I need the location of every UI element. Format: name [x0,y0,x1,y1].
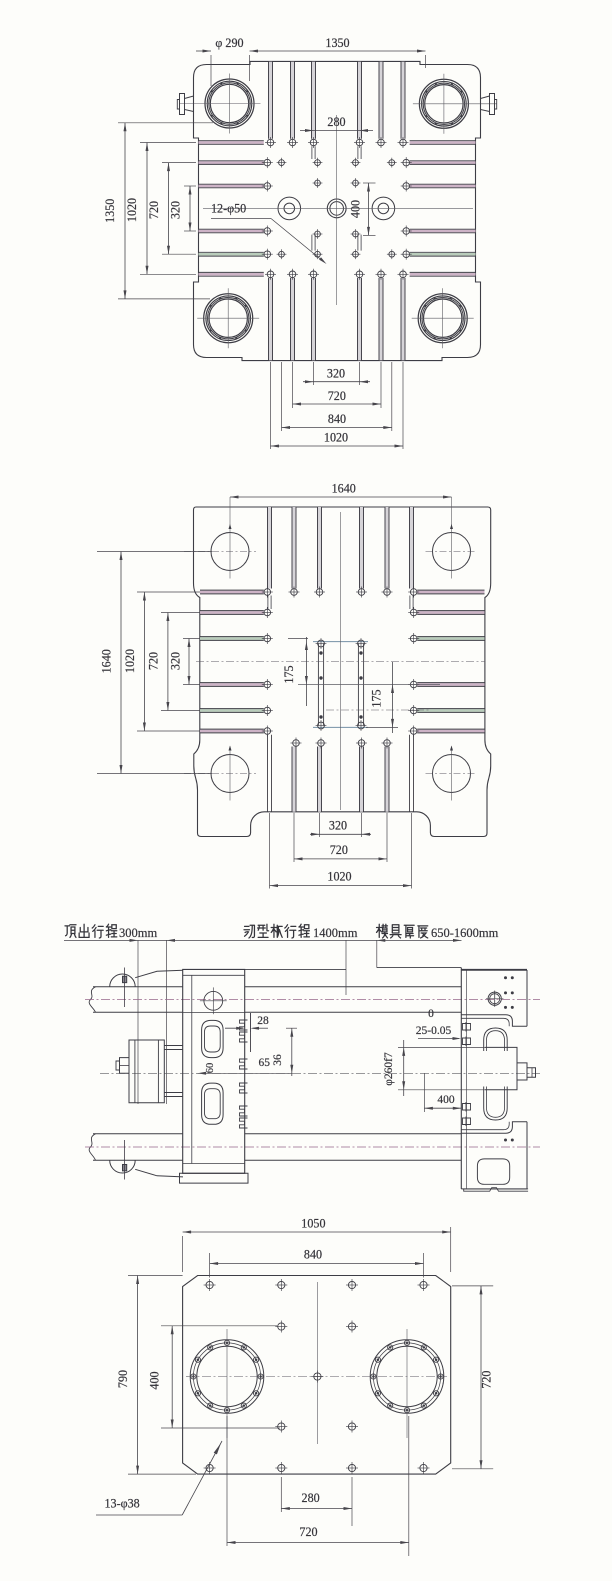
svg-text:320: 320 [169,652,183,670]
svg-text:400: 400 [437,1094,455,1106]
svg-text:1640: 1640 [332,482,356,496]
kidney slot lower (view3) [202,1083,224,1124]
tie bar hole BR (view2) [426,746,478,801]
svg-text:790: 790 [116,1370,130,1388]
guide hole right ring (view1) [372,197,395,220]
left trunnion lug (view1) [177,94,193,115]
flange left (view4) [190,1329,264,1438]
svg-text:320: 320 [329,819,347,833]
svg-text:1350: 1350 [103,199,117,223]
dimension 1640 left (view2) [97,552,212,774]
svg-text:840: 840 [328,412,346,426]
tie bar hole phi290 TR (view1) [413,74,497,134]
dimension 320 left (view2) [169,639,201,685]
moving platen block (view3) [180,969,249,1183]
svg-text:320: 320 [327,367,345,381]
svg-text:720: 720 [330,843,348,857]
ejector bracket top-left (view3) [110,968,183,1008]
svg-text:720: 720 [147,201,161,219]
dimension 320 bottom (view1) [303,367,370,384]
vertical T-slots bottom (view2) [268,735,414,812]
horizontal T-slots left (view2) [200,590,264,733]
svg-text:13-φ38: 13-φ38 [105,1497,140,1511]
label ejector stroke 300mm (view3) [65,924,157,940]
ejector plates (view3) [116,1040,164,1103]
svg-text:650-1600mm: 650-1600mm [431,926,499,940]
svg-text:1050: 1050 [301,1217,325,1231]
tie bar hole phi290 TL (view1) [180,74,261,134]
svg-text:720: 720 [480,1371,494,1389]
bottom extension lines (view2) [270,813,412,889]
mold plate edge line (view3) [250,1013,252,1052]
flange right (view4) [370,1329,444,1438]
horizontal T-slots left (view1) [199,141,264,277]
dimension 1020 left (view2) [123,592,200,731]
centerlines (view4) [186,1282,447,1444]
vertical T-slots top (view2) [268,507,414,609]
svg-text:1020: 1020 [324,431,348,445]
eyebolt hole (view3) [204,991,223,1010]
T-slot end holes rows 2-5 (view1) [262,157,412,260]
bottom right block (view3) [461,1122,528,1192]
view 2 moving platen outline [194,507,491,837]
svg-text:25-0.05: 25-0.05 [416,1025,452,1037]
tolerance labels 0 / 25-0.05 (view3) [416,1008,461,1040]
dimension 1050 top (view4) [183,1217,451,1273]
T-slot end holes row1/row6 (view1) [265,137,409,280]
svg-text:12-φ50: 12-φ50 [211,202,246,216]
label underline and arrows (view3) [64,939,462,942]
bottom extension lines (view1) [271,362,404,449]
dimension 840 bottom (view1) [282,412,392,429]
svg-text:1020: 1020 [125,198,139,222]
ejector rod stubs (view3) [164,1046,182,1097]
dimension 720 left (view2) [147,613,201,711]
svg-text:1400mm: 1400mm [313,926,358,940]
label moving platen stroke 1400mm (view3) [244,924,358,940]
eyebolt hole fixed platen (view3) [486,991,503,1007]
svg-text:280: 280 [327,115,345,129]
svg-text:φ 290: φ 290 [215,36,243,50]
dimension 790 left (view4) [116,1276,196,1475]
tie bar hole TR (view2) [426,497,478,579]
mounting holes grid (view4) [204,1279,430,1474]
tie bar hole BL (view2) [184,746,256,801]
dimension 1640 top (view2) [230,482,452,499]
fixed platen block (view3) [461,968,527,1189]
svg-text:400: 400 [148,1371,162,1389]
dimension 840 (view4) [210,1248,424,1278]
dimension phi260f7 (view3) [383,1040,485,1096]
dimension 1020 bottom (view2) [270,870,412,888]
svg-text:1640: 1640 [100,649,114,673]
svg-text:1020: 1020 [327,870,351,884]
horizontal T-slots right (view1) [410,141,476,277]
svg-text:60: 60 [205,1063,216,1074]
label mold thickness 650-1600mm (view3) [377,924,499,940]
dimension 28 (view3) [225,1013,269,1032]
kidney slot right upper (view3) [484,1028,508,1051]
top edge lines of mold space (view3) [245,968,462,970]
machine axis centerline (view3) [100,1072,540,1074]
guide hole left ring (view1) [278,197,301,220]
platen shelf curves upper (view3) [461,1015,527,1027]
svg-text:175: 175 [282,665,296,683]
view 4 base plate outline [183,1276,451,1475]
svg-text:300mm: 300mm [119,926,157,940]
platen shelf curves lower (view3) [461,1122,527,1134]
dimension 320 bottom (view2) [310,819,371,836]
vertical T-slots top (view1) [269,62,406,159]
label 12-phi50 with leader (view1) [211,202,327,265]
dimension 280 bottom (view4) [281,1477,352,1526]
svg-text:65: 65 [259,1057,271,1069]
dimension 400 (view3) [424,1073,461,1112]
label 13-phi38 with leader (view4) [96,1441,222,1515]
view 1 fixed platen outline [194,61,481,360]
right trunnion lug (view1) [481,94,497,115]
ejector pattern rails (view2) [313,638,368,731]
svg-text:28: 28 [257,1015,269,1027]
face clamp bolts (view3) [463,1022,471,1126]
tie bar hole TL (view2) [184,497,256,579]
dimension 720 bottom (view4) [227,1416,409,1556]
dimension 720 right (view4) [452,1286,494,1469]
dimension 320 left (view1) [169,186,197,231]
kidney slot upper (view3) [202,1020,224,1057]
svg-text:175: 175 [370,689,384,707]
svg-text:1350: 1350 [325,36,349,50]
dimension 720 bottom (view1) [293,389,382,406]
ejector bracket bottom-left (view3) [110,1140,183,1180]
dimension 280 (view1) [300,115,373,132]
slot end holes (view2) [262,587,419,749]
locating ring boss (view3) [485,1047,536,1089]
locating ring center hole (view1) [327,199,346,218]
vertical T-slots bottom (view1) [269,235,406,361]
platen face T-slot sections (view3) [240,1020,248,1128]
horizontal T-slots right (view2) [417,590,484,733]
tapped holes 12-phi50 grid (view1) [277,158,397,259]
dimension 1350 left (view1) [103,123,213,299]
dimension 720 bottom (view2) [294,843,387,860]
dimension 720 left (view1) [147,163,196,255]
centerlines (view1) [203,115,473,305]
tie bar hole phi290 BL (view1) [197,288,259,348]
dimension 65 36 (view3) [198,1028,297,1076]
bottom tie bar (view3) [85,1134,540,1161]
svg-text:720: 720 [328,389,346,403]
dimension 1020 bottom (view1) [271,431,404,448]
svg-text:36: 36 [272,1054,284,1066]
dimension 175 lower (view2) [366,662,398,733]
kidney slot right lower (view3) [484,1087,508,1121]
svg-text:φ260f7: φ260f7 [383,1052,395,1086]
svg-text:400: 400 [349,200,363,218]
dimension 400 left (view4) [148,1326,281,1428]
dimension 1020 left (view1) [125,143,196,275]
extension verticals from labels (view3) [138,940,377,1104]
dimension 175 upper (view2) [282,637,308,706]
dimension phi290 (view1) [196,36,250,86]
svg-text:320: 320 [169,201,183,219]
svg-text:840: 840 [304,1248,322,1262]
dimension 1350 top (view1) [250,36,426,68]
top tie bar (view3) [85,987,540,1013]
svg-text:1020: 1020 [123,649,137,673]
svg-text:720: 720 [299,1525,317,1539]
tie bar hole phi290 BR (view1) [412,288,474,348]
centerlines (view2) [196,512,485,810]
dimension 400 (view1) [349,183,376,235]
svg-text:280: 280 [302,1491,320,1505]
svg-text:0: 0 [428,1008,434,1020]
bolt dots fixed platen top (view3) [504,976,514,1009]
svg-text:720: 720 [147,652,161,670]
